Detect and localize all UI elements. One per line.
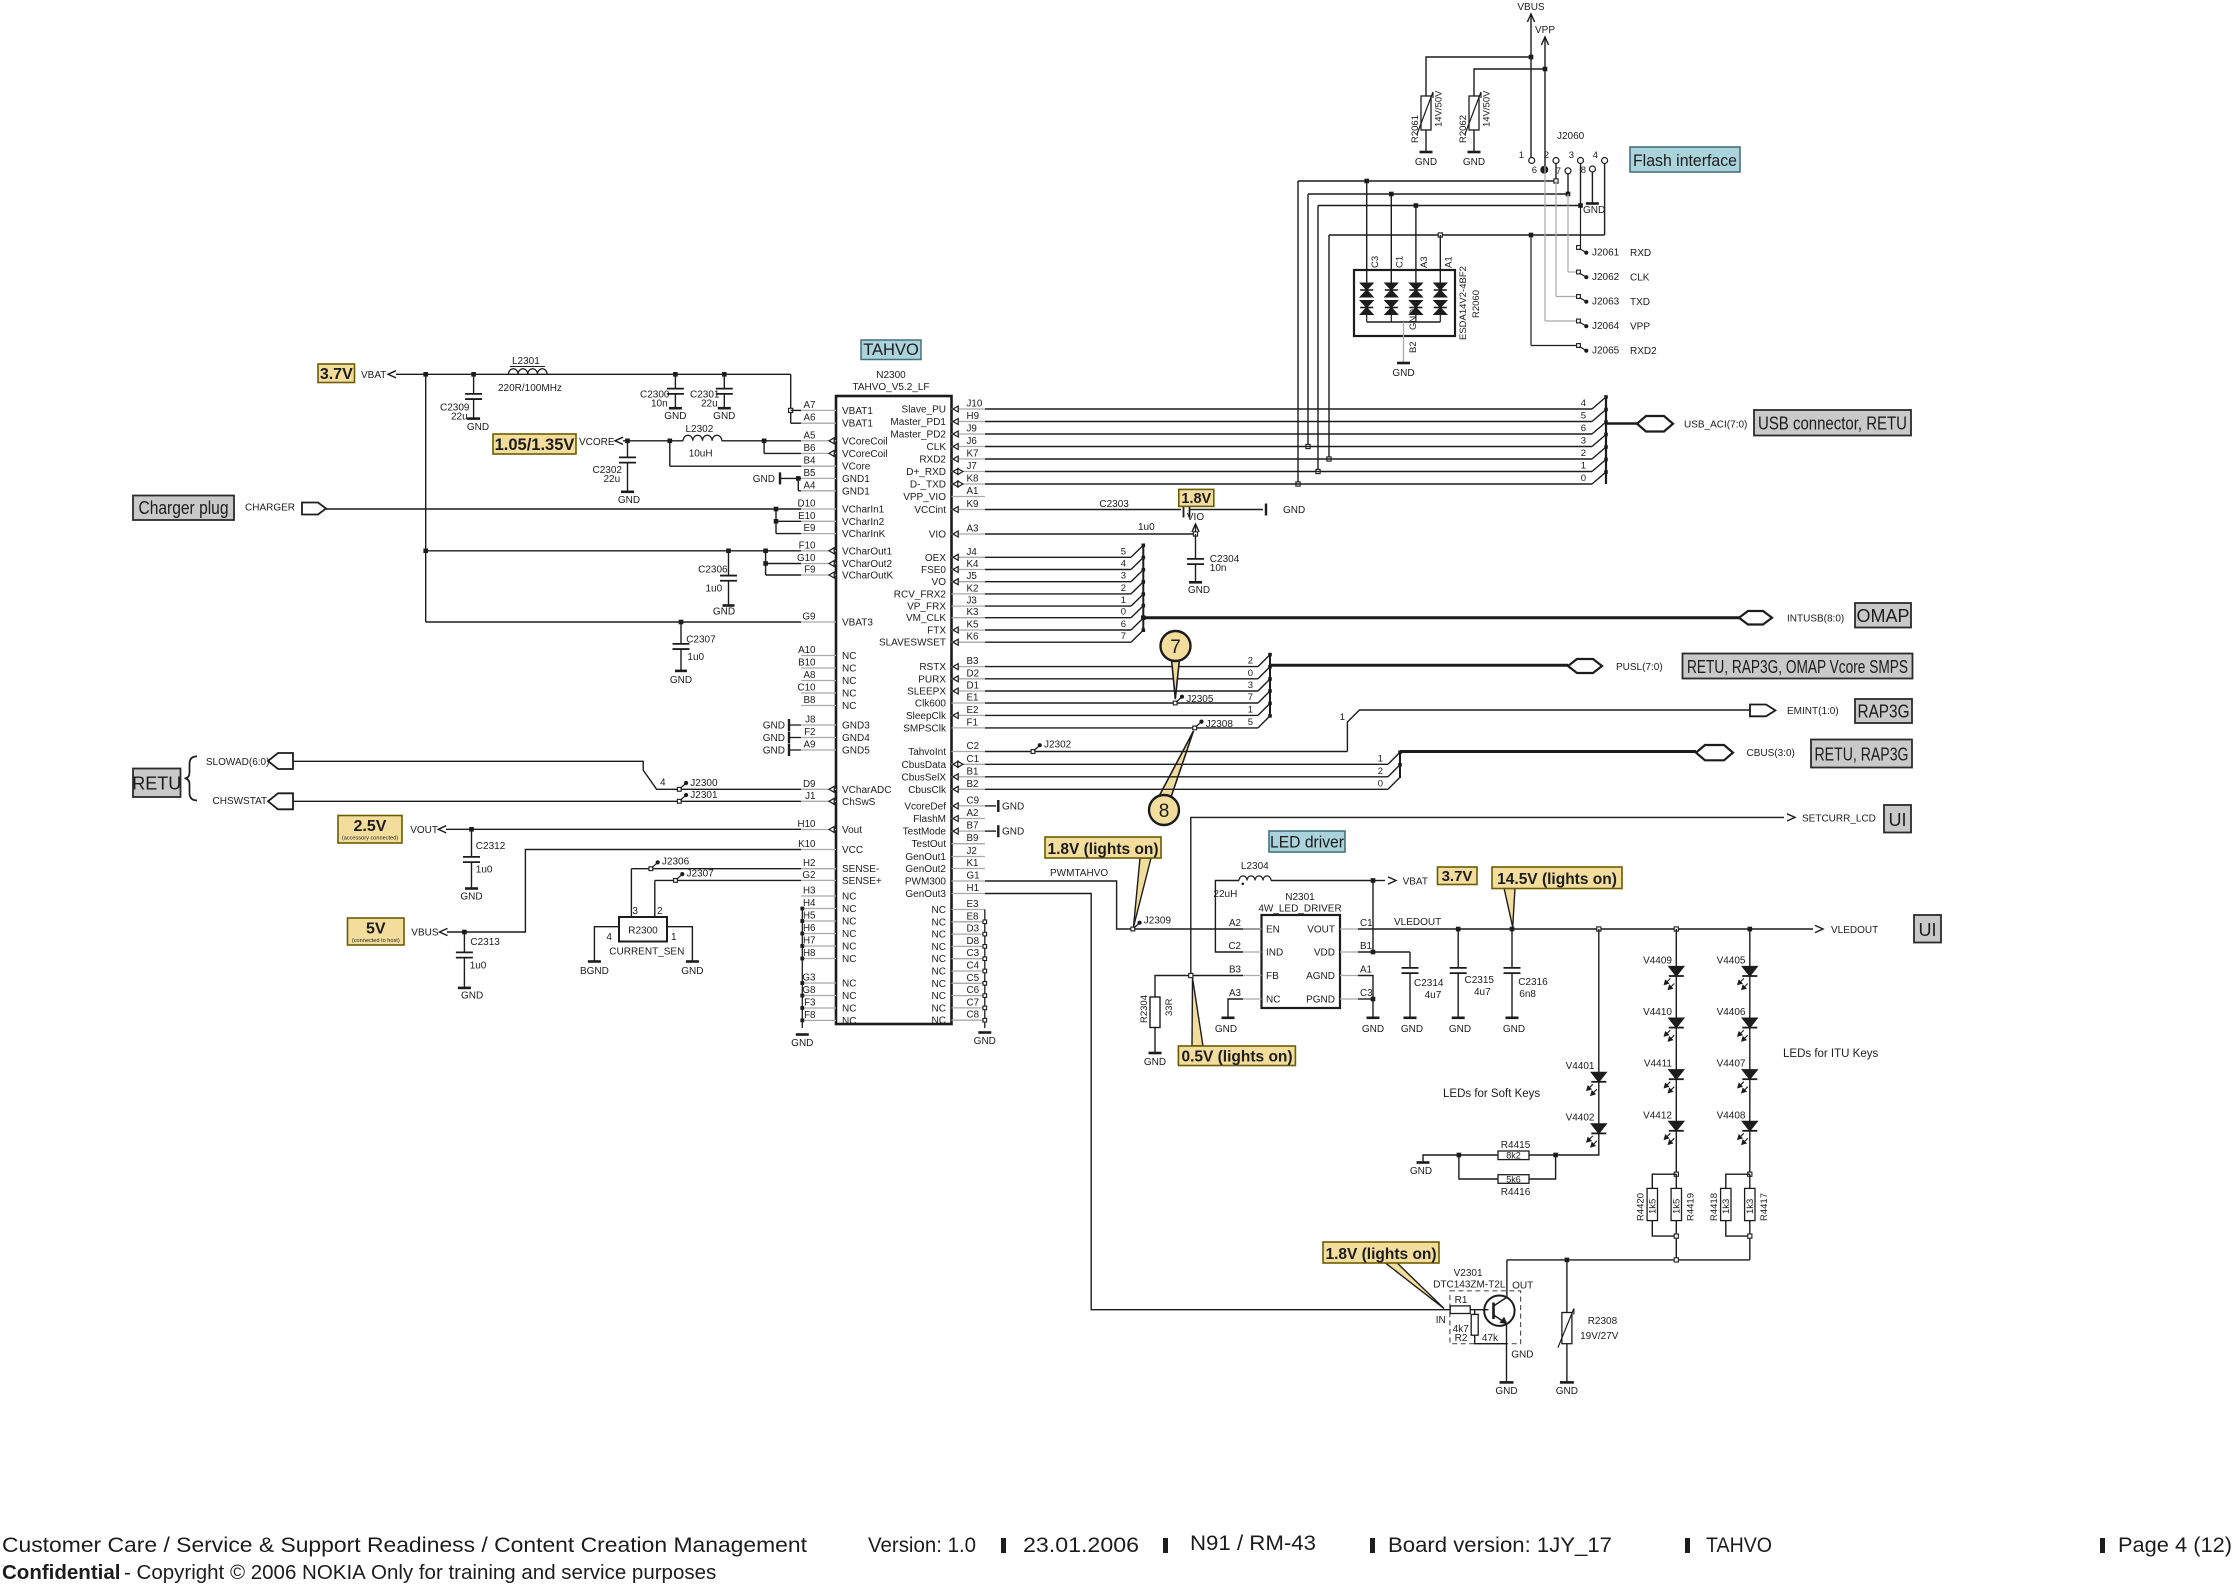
svg-text:V4405: V4405 (1717, 956, 1746, 967)
svg-text:Slave_PU: Slave_PU (902, 405, 946, 416)
footer separator 1 (1001, 1538, 1006, 1553)
bus PUSL(7:0) thick wire (1270, 664, 1568, 667)
bus PUSL vertical (1269, 654, 1271, 716)
reference designator N2300 (876, 370, 906, 381)
wire FB B3 node (1155, 976, 1243, 998)
ground below C2300 (664, 408, 686, 422)
wire CBUS bit 2 (985, 765, 1400, 777)
svg-text:H2: H2 (803, 858, 816, 869)
wire to jumper J2063 (1556, 181, 1579, 297)
svg-text:R4417: R4417 (1759, 1193, 1770, 1221)
svg-text:Board version: 1JY_17: Board version: 1JY_17 (1388, 1534, 1612, 1557)
bus INTUSB vertical (1142, 545, 1144, 631)
pin K10 (VCC) of N2300, left side (798, 839, 863, 856)
svg-text:RXD2: RXD2 (919, 455, 946, 466)
junction VCharIn1/VCharIn2 (774, 507, 779, 512)
pin K4 (FSE0) of N2300, right side (921, 559, 985, 576)
svg-text:SENSE+: SENSE+ (842, 876, 882, 887)
pin H2 (SENSE-) of N2300, left side (801, 858, 879, 875)
pin H9 (Master_PD1) of N2300, right side (890, 411, 985, 428)
svg-text:VIO: VIO (1187, 512, 1204, 523)
label RETU, RAP3G, OMAP Vcore SMPS (grey box) (1683, 654, 1913, 679)
svg-text:GND: GND (1408, 309, 1419, 330)
svg-text:GND: GND (1401, 1024, 1423, 1035)
svg-text:V4406: V4406 (1717, 1007, 1746, 1018)
bus bit label 1 (1340, 712, 1345, 723)
footer separator 2 (1163, 1538, 1168, 1553)
LED V4410 (1643, 976, 1684, 1041)
bus bit label 1 (1121, 595, 1126, 606)
net VLEDOUT arrow to UI (1815, 925, 1878, 936)
svg-text:LEDs for Soft Keys: LEDs for Soft Keys (1443, 1088, 1540, 1100)
footer board version (1388, 1534, 1612, 1557)
svg-text:J2302: J2302 (1044, 740, 1072, 751)
bus USB_ACI vertical (1605, 397, 1607, 484)
svg-text:R1: R1 (1455, 1295, 1468, 1306)
ground below V2301 emitter (1495, 1382, 1517, 1397)
pin 4 of R2300 (594, 927, 619, 962)
capacitor C2309 22u (440, 374, 482, 422)
bus bit label 7 (1121, 631, 1126, 642)
inductor L2302 10uH (683, 424, 722, 460)
transistor V2301 DTC143ZM-T2L (1433, 1268, 1533, 1326)
svg-text:V4409: V4409 (1643, 956, 1672, 967)
svg-text:8: 8 (1159, 801, 1170, 822)
junction bus USB_ACI bit 6 (1604, 420, 1608, 424)
label RETU, RAP3G (grey box) (1811, 740, 1912, 768)
ground below C2309 (467, 419, 489, 433)
svg-text:C2307: C2307 (686, 635, 716, 646)
svg-text:8k2: 8k2 (1506, 1151, 1521, 1161)
svg-text:C2: C2 (1228, 941, 1241, 952)
svg-text:1u0: 1u0 (1138, 522, 1155, 533)
pin G10 (VCharOut2) of N2300, left side (797, 553, 892, 570)
svg-text:LEDs for ITU Keys: LEDs for ITU Keys (1783, 1048, 1878, 1060)
ground below R2060 (1392, 363, 1414, 379)
svg-text:USB connector, RETU: USB connector, RETU (1758, 414, 1907, 434)
IC N2301 LED driver body (1262, 915, 1341, 1008)
svg-text:OMAP: OMAP (1856, 606, 1909, 626)
wire INTUSB bit 1 (985, 594, 1143, 606)
junction A1 diode (1438, 233, 1442, 237)
net NC stubs tie, right bottom, to GND (983, 910, 987, 1029)
wire SENSE+ G2 (655, 879, 801, 881)
svg-text:GND: GND (460, 892, 482, 903)
svg-text:VCharADC: VCharADC (842, 785, 891, 796)
svg-text:V4402: V4402 (1566, 1113, 1595, 1124)
svg-text:C2315: C2315 (1465, 975, 1495, 986)
bus bit label 3 (1121, 571, 1126, 582)
svg-text:NC: NC (842, 1004, 856, 1015)
svg-text:VCharInK: VCharInK (842, 529, 886, 540)
svg-text:1.8V (lights on): 1.8V (lights on) (1047, 841, 1158, 858)
svg-text:DTC143ZM-T2L: DTC143ZM-T2L (1433, 1280, 1506, 1291)
pin J3 (VP_FRX) of N2300, right side (907, 596, 985, 613)
wire to jumper J2064 (1545, 166, 1579, 321)
junction VBAT/C2300 (673, 372, 678, 377)
svg-text:AGND: AGND (1306, 971, 1335, 982)
net EMINT(1:0) (1787, 706, 1839, 717)
svg-text:GND1: GND1 (842, 474, 870, 485)
junction J2309 (1131, 927, 1136, 932)
svg-text:GenOut1: GenOut1 (905, 852, 946, 863)
pin G3 (NC) of N2300, left side (801, 973, 856, 990)
pin H6 (NC) of N2300, left side (801, 923, 856, 940)
svg-text:USB_ACI(7:0): USB_ACI(7:0) (1684, 420, 1747, 431)
svg-text:NC: NC (842, 892, 856, 903)
svg-text:33R: 33R (1164, 998, 1175, 1016)
pin 1 of J2060 (1519, 150, 1535, 164)
svg-text:6: 6 (1581, 423, 1586, 434)
pin label A3 (1419, 256, 1430, 268)
svg-text:GND: GND (1463, 157, 1485, 168)
wire to jumper J2061 (1580, 206, 1582, 248)
wire VBUS to VCC K10 (447, 850, 801, 933)
svg-text:C2313: C2313 (470, 937, 500, 948)
svg-text:RCV_FRX2: RCV_FRX2 (894, 589, 947, 600)
pin B3 (FB) of N2301, left (1229, 965, 1279, 983)
wire VBAT rail horizontal (396, 373, 791, 375)
svg-text:K8: K8 (967, 474, 980, 485)
svg-text:GND: GND (1495, 1386, 1517, 1397)
svg-text:R2304: R2304 (1139, 995, 1150, 1023)
svg-text:PUSL(7:0): PUSL(7:0) (1616, 662, 1663, 673)
pin E9 (VCharInK) of N2300, left side (801, 523, 886, 540)
pin B9 (TestOut) of N2300, right side (912, 833, 985, 850)
junction pin2 wire (1554, 179, 1558, 183)
wire CHSWSTAT to ChSwS (293, 800, 801, 802)
svg-text:L2302: L2302 (686, 424, 714, 435)
pin F2 (GND4) of N2300, left side (801, 727, 870, 744)
svg-text:22uH: 22uH (1213, 889, 1237, 900)
pin F3 (NC) of N2300, left side (801, 998, 856, 1015)
svg-text:PWMTAHVO: PWMTAHVO (1050, 868, 1108, 879)
wire R2308 to GND (1566, 1344, 1568, 1383)
pin F10 (VCharOut1) of N2300, left side (799, 540, 893, 557)
pin G1 (PWM300) of N2300, right side (905, 871, 985, 888)
wire PUSL bit 3 (985, 679, 1270, 691)
pin H5 (NC) of N2300, left side (801, 911, 856, 928)
svg-text:VCharOut2: VCharOut2 (842, 559, 892, 570)
svg-text:GND: GND (1415, 157, 1437, 168)
svg-text:K5: K5 (967, 620, 980, 631)
svg-text:7: 7 (1170, 637, 1181, 658)
junction VBUS/C2313 (462, 930, 467, 935)
junction bus INTUSB bit 4 (1142, 556, 1146, 560)
wire flash D+_RXD (pin3) (1318, 164, 1581, 472)
pin A6 (VBAT1) of N2300, left side (801, 413, 873, 430)
pin E2 (SleepClk) of N2300, right side (906, 705, 985, 722)
svg-text:Master_PD2: Master_PD2 (890, 430, 946, 441)
ground below pin 1 (681, 962, 703, 977)
pin 2 of R2300 (655, 880, 663, 917)
svg-text:14V/50V: 14V/50V (1482, 90, 1493, 127)
junction FB/SETCURR (1189, 973, 1193, 977)
svg-text:OEX: OEX (925, 553, 946, 564)
wire flash CLK (pin7) (1308, 174, 1568, 447)
wire VIO A3 (985, 533, 1196, 535)
pin A8 (NC) of N2300, left side (801, 670, 856, 687)
ground below C2304 (1188, 582, 1210, 596)
ground at pin GND3 (763, 719, 801, 732)
net VOUT (410, 825, 446, 836)
label OMAP (grey box) (1855, 603, 1911, 628)
svg-text:VO: VO (932, 577, 947, 588)
svg-text:G2: G2 (802, 870, 815, 881)
svg-text:3.7V: 3.7V (320, 366, 353, 383)
svg-text:J2: J2 (967, 846, 977, 857)
text LEDs for Soft Keys (1443, 1088, 1540, 1100)
svg-text:GND: GND (467, 422, 489, 433)
resistor R2 47k (in V2301) (1455, 1310, 1499, 1344)
svg-text:C4: C4 (967, 961, 980, 972)
ground below C2312 (460, 889, 482, 903)
svg-text:(connected to host): (connected to host) (352, 938, 400, 944)
svg-text:Confidential: Confidential (2, 1561, 120, 1584)
svg-text:GND: GND (681, 966, 703, 977)
wire LED cathode bus to V2301 (1507, 1259, 1750, 1261)
svg-text:3: 3 (1569, 150, 1574, 161)
svg-text:NC: NC (932, 954, 946, 965)
svg-text:14.5V (lights on): 14.5V (lights on) (1497, 871, 1617, 888)
junction VDD B1 (1371, 950, 1376, 955)
svg-text:E1: E1 (967, 693, 979, 704)
bus bit label 0 (1121, 607, 1126, 618)
svg-text:10n: 10n (1210, 563, 1227, 574)
port CHSWSTAT input arrow (268, 793, 293, 809)
power label 5V (connected to host) (348, 918, 405, 945)
pin J2 (GenOut1) of N2300, right side (905, 846, 985, 863)
svg-text:OUT: OUT (1512, 1281, 1533, 1292)
svg-text:A1: A1 (1360, 965, 1372, 976)
ground at GND1 pins B5/A4 (753, 472, 801, 485)
svg-text:FlashM: FlashM (913, 814, 946, 825)
pin E1 (Clk600) of N2300, right side (915, 693, 985, 710)
pin K8 (D-_TXD) of N2300, right side (910, 474, 985, 491)
svg-text:GND: GND (1556, 1386, 1578, 1397)
svg-text:5: 5 (1248, 717, 1253, 728)
svg-text:Master_PD1: Master_PD1 (890, 417, 946, 428)
svg-text:V4407: V4407 (1717, 1059, 1746, 1070)
LED V4402 (1566, 1082, 1607, 1147)
svg-text:CLK: CLK (1630, 273, 1650, 284)
svg-text:H4: H4 (803, 898, 816, 909)
bus bit label 0 (1581, 473, 1586, 484)
svg-text:1: 1 (1121, 595, 1126, 606)
footer line 2 (2, 1561, 716, 1584)
svg-text:SLOWAD(6:0): SLOWAD(6:0) (206, 757, 270, 768)
bus width 4 label (660, 778, 666, 789)
svg-text:V4412: V4412 (1643, 1110, 1672, 1121)
svg-text:R4416: R4416 (1501, 1187, 1531, 1198)
svg-text:D10: D10 (798, 499, 817, 510)
svg-text:A3: A3 (1229, 988, 1242, 999)
wire PUSL bit 7 (985, 691, 1270, 703)
junction VLEDOUT / ITU LED column 1 (1674, 927, 1678, 931)
ground below C2307 (670, 671, 692, 686)
svg-text:RAP3G: RAP3G (1858, 702, 1910, 722)
svg-text:NC: NC (842, 676, 856, 687)
diode array R2060 ESDA14V2-4BF2 body (1354, 266, 1482, 340)
pin K1 (GenOut2) of N2300, right side (905, 858, 985, 875)
junction C1 diode (1389, 192, 1394, 197)
svg-text:GND: GND (974, 1036, 996, 1047)
pin E10 (VCharIn2) of N2300, left side (798, 511, 885, 528)
wire R4415 left to GND (1423, 1155, 1498, 1163)
svg-text:B7: B7 (967, 821, 979, 832)
svg-text:1u0: 1u0 (687, 652, 704, 663)
svg-text:5k6: 5k6 (1506, 1174, 1521, 1184)
svg-text:NC: NC (932, 979, 946, 990)
svg-text:K1: K1 (967, 858, 979, 869)
svg-text:VCharIn1: VCharIn1 (842, 505, 885, 516)
LED V4401 (1566, 929, 1607, 1095)
varistor R2308 19V/27V (1558, 1260, 1619, 1348)
svg-text:A3: A3 (1419, 256, 1430, 268)
svg-text:CbusData: CbusData (902, 760, 947, 771)
svg-text:3.7V: 3.7V (1442, 868, 1473, 885)
pin K3 (VM_CLK) of N2300, right side (906, 607, 985, 624)
bus bit label 4 (1581, 398, 1586, 409)
svg-text:D-_TXD: D-_TXD (910, 480, 946, 491)
varistor R2062 14V/50V (1458, 90, 1493, 143)
svg-text:A2: A2 (967, 808, 979, 819)
junction bus INTUSB bit 3 (1142, 568, 1146, 572)
svg-text:B10: B10 (798, 658, 816, 669)
svg-text:L2301: L2301 (512, 356, 540, 367)
svg-text:GND: GND (763, 746, 785, 757)
bus CBUS vertical (1399, 752, 1401, 779)
svg-text:4: 4 (606, 932, 612, 943)
pin H7 (NC) of N2300, left side (801, 936, 856, 953)
svg-text:PURX: PURX (918, 674, 946, 685)
svg-text:C2: C2 (967, 741, 980, 752)
svg-text:1u0: 1u0 (706, 584, 723, 595)
LED V4409 (1643, 929, 1684, 990)
pin C5 (NC) of N2300, right side (932, 973, 985, 990)
svg-text:R2: R2 (1455, 1333, 1468, 1344)
inductor L2304 22uH (1213, 861, 1271, 952)
svg-text:GND: GND (1362, 1024, 1384, 1035)
svg-text:1k5: 1k5 (1647, 1199, 1658, 1214)
wire emitter to GND (1475, 1324, 1534, 1383)
svg-text:NC: NC (1266, 995, 1280, 1006)
svg-text:G8: G8 (802, 985, 816, 996)
transil diode pair A3 (1409, 206, 1422, 323)
wire SLOWAD to VCharADC (293, 761, 801, 789)
wire INTUSB bit 5 (985, 545, 1143, 557)
pin A3 (VIO) of N2300, right side (929, 524, 985, 541)
svg-text:GND: GND (1002, 827, 1024, 838)
svg-text:H9: H9 (967, 411, 980, 422)
svg-text:19V/27V: 19V/27V (1580, 1331, 1619, 1342)
svg-text:B1: B1 (1360, 941, 1372, 952)
junction VBAT/vertical (423, 372, 428, 377)
svg-text:GND: GND (753, 474, 775, 485)
wire VBAT down to VDD B1 (1372, 881, 1374, 953)
net VBUS (flash, top) (1517, 2, 1545, 157)
svg-text:NC: NC (842, 904, 856, 915)
svg-text:VCoreCoil: VCoreCoil (842, 436, 888, 447)
jumper J2309 (1131, 916, 1172, 931)
wire PUSL bit 2 (985, 655, 1270, 667)
pin A3 (NC) of N2301, left (1229, 988, 1280, 1006)
svg-text:GND5: GND5 (842, 746, 870, 757)
svg-text:4u7: 4u7 (1425, 990, 1442, 1001)
wire INTUSB bit 2 (985, 582, 1143, 594)
svg-text:GND: GND (1583, 205, 1605, 216)
bus INTUSB(8:0) thick wire to OMAP (1143, 616, 1739, 619)
junction VBAT/VDD (1371, 878, 1376, 883)
svg-text:GND: GND (1449, 1024, 1471, 1035)
svg-text:J2305: J2305 (1186, 694, 1214, 705)
pin 7 of J2060 (1556, 166, 1571, 177)
svg-text:C3: C3 (1370, 256, 1381, 268)
wire B2 to ground (1403, 322, 1405, 363)
junction bus PUSL bit 7 (1268, 689, 1272, 693)
svg-text:VM_CLK: VM_CLK (906, 613, 946, 624)
junction VBAT/C2309 (471, 372, 476, 377)
svg-text:Customer Care / Service & Supp: Customer Care / Service & Support Readin… (2, 1534, 807, 1557)
wire VCORE (623, 440, 683, 442)
svg-text:3: 3 (1121, 571, 1126, 582)
svg-text:R4418: R4418 (1709, 1193, 1720, 1221)
svg-text:0: 0 (1121, 607, 1126, 618)
jumper J2064 (VPP) (1577, 319, 1651, 332)
junction D-_TXD at K8 (1296, 482, 1300, 486)
LED V4411 (1644, 1028, 1684, 1093)
NPN transistor symbol (1484, 1296, 1514, 1326)
svg-text:NC: NC (842, 942, 856, 953)
balloon callout 7 (1161, 631, 1191, 699)
LED V4412 (1643, 1079, 1684, 1144)
junction bus USB_ACI bit 4 (1604, 395, 1608, 399)
svg-text:J4: J4 (967, 547, 978, 558)
svg-text:CHARGER: CHARGER (245, 503, 295, 514)
svg-text:J10: J10 (967, 399, 983, 410)
svg-text:SleepClk: SleepClk (906, 711, 947, 722)
junction VLEDOUT / ITU LED column 2 (1748, 927, 1753, 932)
callout 14.5V (lights on) (1492, 867, 1622, 927)
svg-text:GND: GND (461, 991, 483, 1002)
capacitor C2307 1u0 (673, 622, 717, 671)
svg-text:J2065: J2065 (1592, 346, 1620, 357)
svg-text:NC: NC (932, 917, 946, 928)
svg-text:C7: C7 (967, 997, 980, 1008)
svg-text:J8: J8 (805, 715, 816, 726)
capacitor C2303 1u0 (VCCint) (985, 499, 1263, 533)
pin J8 (GND3) of N2300, left side (801, 715, 870, 732)
port EMINT output arrow (1750, 705, 1775, 717)
svg-text:G10: G10 (797, 553, 816, 564)
svg-text:3: 3 (1248, 680, 1253, 691)
ground below C2302 (618, 492, 640, 506)
svg-text:GND: GND (763, 721, 785, 732)
junction bus INTUSB bit 5 (1142, 544, 1146, 548)
junction VBUS/R2061 branch (1529, 55, 1534, 60)
svg-text:VCC: VCC (842, 845, 863, 856)
inductor L2301 220R/100MHz (498, 356, 562, 394)
pin B6 (VCoreCoil) of N2300, left side (801, 443, 888, 460)
svg-text:B5: B5 (804, 468, 817, 479)
svg-text:VOUT: VOUT (1307, 925, 1335, 936)
svg-text:- Copyright © 2006 NOKIA: - Copyright © 2006 NOKIA (124, 1561, 366, 1584)
junction cathode bus / R4419 column (1674, 1258, 1678, 1262)
svg-text:GND: GND (791, 1038, 813, 1049)
svg-text:VDD: VDD (1314, 948, 1335, 959)
wire VCoreCoil B6 (764, 441, 801, 454)
svg-text:NC: NC (842, 929, 856, 940)
